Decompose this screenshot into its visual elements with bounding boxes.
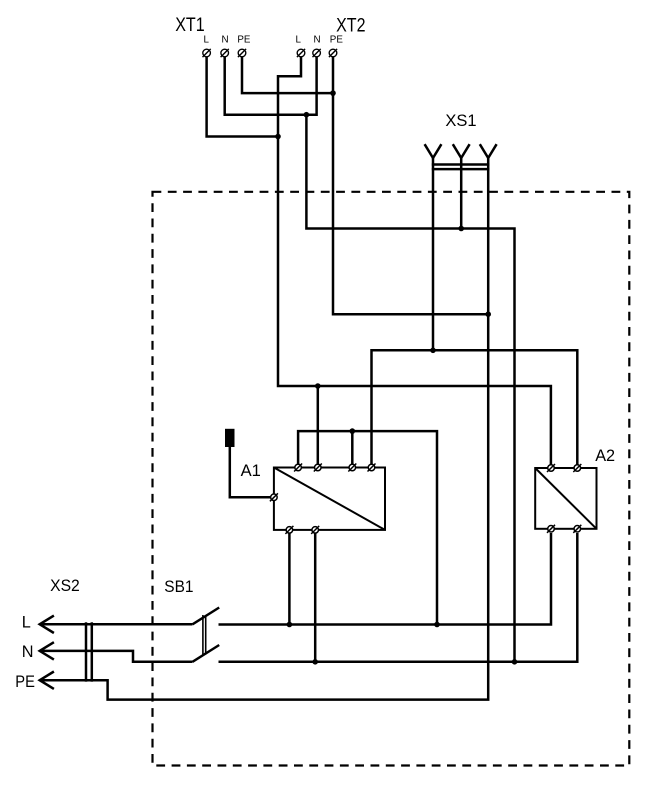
svg-text:XT1: XT1 xyxy=(175,14,205,36)
svg-text:A2: A2 xyxy=(595,446,615,465)
svg-text:N: N xyxy=(22,643,34,661)
svg-text:L: L xyxy=(295,35,301,46)
svg-text:L: L xyxy=(22,614,31,632)
svg-text:N: N xyxy=(221,35,228,46)
svg-text:XS2: XS2 xyxy=(50,577,80,595)
svg-text:PE: PE xyxy=(330,35,344,46)
svg-text:N: N xyxy=(313,35,320,46)
svg-text:PE: PE xyxy=(15,673,35,691)
svg-text:SB1: SB1 xyxy=(164,578,193,596)
svg-text:XT2: XT2 xyxy=(336,16,365,37)
svg-text:A1: A1 xyxy=(241,461,261,480)
svg-text:L: L xyxy=(203,35,209,46)
svg-text:PE: PE xyxy=(237,35,251,46)
svg-text:XS1: XS1 xyxy=(445,111,476,130)
